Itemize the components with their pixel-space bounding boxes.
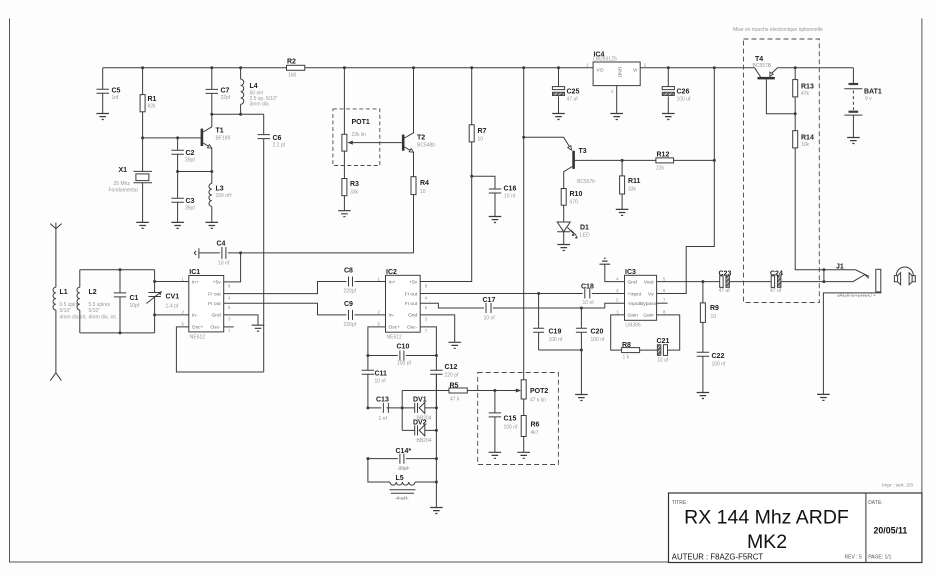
- svg-text:R4: R4: [420, 180, 429, 187]
- svg-text:22k lin: 22k lin: [352, 132, 367, 138]
- ground (C22): [697, 393, 710, 399]
- capacitor C3: [171, 172, 195, 223]
- capacitor C4 with input stub: [194, 241, 240, 267]
- svg-text:150 nH: 150 nH: [216, 193, 233, 199]
- svg-text:9 v: 9 v: [865, 96, 872, 102]
- capacitor C17: [483, 297, 625, 322]
- wire IC1 Osc+ loop to C6: [176, 327, 263, 372]
- capacitor C6: [258, 114, 286, 372]
- voltage regulator IC4: [586, 52, 647, 114]
- capacitor C13: [366, 397, 402, 423]
- capacitor C23: [719, 271, 772, 295]
- svg-text:R14: R14: [801, 135, 814, 142]
- capacitor C7: [206, 68, 231, 115]
- dashed box POT2 assembly: [478, 373, 559, 465]
- svg-text:10pf: 10pf: [130, 303, 140, 309]
- capacitor C15: [489, 389, 518, 452]
- svg-text:Gain: Gain: [628, 313, 639, 319]
- svg-text:C25: C25: [567, 89, 580, 96]
- transistor T3: [524, 137, 656, 188]
- svg-text:3mm dia: 3mm dia: [250, 102, 269, 108]
- resistor R8: [611, 315, 658, 361]
- svg-text:C10: C10: [397, 344, 410, 351]
- svg-text:47k: 47k: [801, 91, 810, 97]
- svg-text:L3: L3: [216, 186, 224, 193]
- svg-text:5/10": 5/10": [60, 308, 72, 314]
- svg-text:LM386: LM386: [625, 323, 641, 329]
- svg-text:POT2: POT2: [530, 388, 548, 395]
- wire +5v to IC1 pin8 / R4 emitter line: [224, 251, 414, 282]
- svg-text:10k: 10k: [801, 142, 810, 148]
- svg-text:BAT1: BAT1: [864, 89, 882, 96]
- svg-text:L2: L2: [89, 289, 97, 296]
- svg-text:R13: R13: [801, 84, 814, 91]
- svg-text:20/05/11: 20/05/11: [874, 526, 908, 536]
- svg-text:C14*: C14*: [396, 448, 412, 455]
- variable capacitor CV1: [147, 270, 180, 333]
- svg-text:100 nf: 100 nf: [549, 337, 564, 343]
- svg-text:1 k: 1 k: [623, 355, 630, 361]
- resistor R12: [656, 152, 714, 172]
- capacitor C22: [697, 352, 726, 392]
- capacitor C19: [533, 294, 563, 351]
- wire IC1 Osc- stub pin7: [224, 326, 234, 328]
- ground (IC1): [252, 325, 265, 331]
- svg-text:C8: C8: [344, 268, 353, 275]
- capacitor C26: [662, 68, 691, 114]
- ground (L5/C12 tank): [430, 508, 443, 514]
- ground (R3): [338, 211, 351, 217]
- ground (C5): [96, 114, 109, 120]
- ground (D1): [557, 245, 570, 251]
- svg-text:In-: In-: [389, 313, 395, 319]
- svg-text:C3: C3: [186, 198, 195, 205]
- svg-text:R10: R10: [570, 191, 583, 198]
- svg-text:LM2931Z5: LM2931Z5: [593, 57, 617, 63]
- svg-text:T4: T4: [755, 56, 763, 63]
- ground (BAT1): [847, 138, 860, 144]
- svg-text:4k7: 4k7: [531, 430, 539, 436]
- svg-text:Gnd: Gnd: [408, 313, 418, 319]
- svg-text:100 uf: 100 uf: [677, 97, 692, 103]
- svg-text:Osc+: Osc+: [192, 325, 204, 331]
- svg-text:VI: VI: [633, 68, 638, 74]
- svg-text:C17: C17: [483, 297, 496, 304]
- transistor T2: [402, 68, 435, 177]
- svg-text:10 nf: 10 nf: [484, 316, 496, 322]
- transistor T1: [201, 114, 231, 171]
- svg-text:C5: C5: [112, 88, 121, 95]
- svg-text:33k: 33k: [350, 190, 359, 196]
- inductor L3: [209, 172, 232, 223]
- svg-text:+5v: +5v: [409, 279, 418, 285]
- capacitor C14*: [366, 448, 438, 472]
- svg-text:39pf: 39pf: [185, 158, 195, 164]
- svg-text:4mm dia. int.: 4mm dia. int.: [89, 314, 118, 320]
- svg-text:22pf: 22pf: [221, 95, 231, 101]
- wire IC3 Gnd pin4: [605, 264, 625, 281]
- svg-text:MK2: MK2: [747, 531, 787, 553]
- capacitor C21: [657, 315, 680, 364]
- svg-text:In-: In-: [192, 313, 198, 319]
- svg-text:IC3: IC3: [625, 269, 636, 276]
- svg-text:C12: C12: [445, 364, 458, 371]
- svg-text:C15: C15: [504, 416, 517, 423]
- svg-text:TITRE:: TITRE:: [672, 500, 688, 506]
- svg-text:C4: C4: [217, 241, 226, 248]
- svg-text:47 uf: 47 uf: [719, 288, 731, 294]
- ground (IC4): [610, 114, 623, 120]
- ground (IC2): [448, 342, 461, 348]
- svg-text:IC2: IC2: [386, 269, 397, 276]
- wire IC3 pin7 stub: [657, 302, 668, 304]
- ground (C16): [489, 217, 502, 223]
- svg-text:RX 144 Mhz ARDF: RX 144 Mhz ARDF: [684, 507, 849, 529]
- svg-text:LED: LED: [580, 233, 590, 239]
- svg-text:In+: In+: [192, 279, 199, 285]
- resistor R2: [287, 59, 305, 79]
- svg-text:10: 10: [420, 189, 426, 195]
- svg-text:DV2: DV2: [413, 419, 427, 426]
- title block: [669, 493, 922, 563]
- svg-text:4mm dia int.: 4mm dia int.: [60, 314, 87, 320]
- headphones icon: [894, 267, 915, 285]
- svg-text:DV1: DV1: [413, 396, 427, 403]
- svg-text:R3: R3: [350, 181, 359, 188]
- svg-text:470: 470: [570, 200, 579, 206]
- svg-text:Impr : vert. 2/3: Impr : vert. 2/3: [882, 483, 913, 489]
- svg-text:Fondamental: Fondamental: [109, 188, 138, 194]
- LED D1: [557, 222, 590, 245]
- svg-text:+5v: +5v: [213, 279, 222, 285]
- wire supply branch to IC3 Vs: [657, 68, 716, 294]
- svg-text:C26: C26: [677, 89, 690, 96]
- svg-text:39pf: 39pf: [399, 466, 409, 472]
- op-amp/IC IC2 (NE612): [378, 269, 428, 341]
- svg-text:R12: R12: [657, 152, 670, 159]
- svg-text:10 nf: 10 nf: [583, 300, 595, 306]
- svg-text:10 uf: 10 uf: [657, 358, 669, 364]
- capacitor C18: [581, 284, 625, 307]
- svg-text:+Input: +Input: [628, 291, 642, 297]
- svg-text:100 pf: 100 pf: [397, 361, 412, 367]
- svg-text:47 k lin: 47 k lin: [530, 398, 546, 404]
- resistor R14: [793, 114, 824, 270]
- svg-text:R6: R6: [531, 422, 540, 429]
- svg-text:CV1: CV1: [166, 294, 180, 301]
- svg-text:VO: VO: [597, 68, 604, 74]
- svg-text:1 nf: 1 nf: [379, 416, 388, 422]
- svg-text:D1: D1: [580, 225, 589, 232]
- resistor R9: [700, 282, 719, 353]
- svg-text:REV : 5: REV : 5: [845, 555, 862, 561]
- svg-text:C22: C22: [712, 353, 725, 360]
- svg-text:100 nf: 100 nf: [712, 362, 727, 368]
- wire C19/C20 to ground: [539, 349, 583, 395]
- svg-text:22k: 22k: [656, 166, 665, 172]
- svg-text:L1: L1: [60, 289, 68, 296]
- svg-text:33k: 33k: [628, 187, 637, 193]
- svg-text:100 nf: 100 nf: [504, 425, 519, 431]
- ground (C15): [489, 452, 502, 458]
- capacitor C2: [171, 138, 195, 172]
- wire IC1 FI out pin5 to C9: [224, 303, 347, 315]
- svg-text:100 nf: 100 nf: [591, 337, 606, 343]
- svg-text:NE612: NE612: [190, 334, 206, 340]
- wire T1 base node: [141, 136, 201, 139]
- capacitor C11: [362, 356, 387, 408]
- svg-text:R11: R11: [628, 178, 641, 185]
- antenna: [50, 223, 61, 381]
- wire T1 collector node: [210, 113, 263, 116]
- svg-text:C23: C23: [719, 271, 732, 278]
- wire emitter node: [176, 170, 213, 173]
- svg-text:10: 10: [478, 137, 484, 143]
- svg-text:L4: L4: [250, 83, 258, 90]
- svg-text:T2: T2: [417, 135, 425, 142]
- svg-text:C6: C6: [273, 135, 282, 142]
- svg-text:BB204: BB204: [417, 438, 432, 444]
- svg-text:Osc+: Osc+: [389, 325, 401, 331]
- svg-text:C2: C2: [186, 150, 195, 157]
- resistor R7: [420, 68, 486, 282]
- svg-text:FI out: FI out: [208, 301, 221, 307]
- svg-text:47 k: 47 k: [450, 397, 460, 403]
- dashed box Mise en marche electronique optionnelle: [733, 27, 823, 303]
- ground (X1): [136, 222, 149, 228]
- svg-text:1k8: 1k8: [288, 73, 296, 79]
- svg-text:GND: GND: [617, 67, 623, 78]
- transistor T4: [753, 56, 796, 114]
- wire IC2 Osc- riser: [420, 327, 436, 356]
- ground (C3): [171, 222, 184, 228]
- svg-text:FI out: FI out: [405, 301, 418, 307]
- inductor L4: [241, 68, 278, 115]
- svg-text:220pf: 220pf: [344, 322, 357, 328]
- capacitor C24: [770, 271, 824, 295]
- svg-text:2.2 pf: 2.2 pf: [273, 143, 286, 149]
- capacitor C5: [97, 68, 121, 114]
- svg-text:47 uf: 47 uf: [770, 288, 782, 294]
- svg-text:C7: C7: [221, 88, 230, 95]
- wire IC3 Vout to C23: [657, 280, 720, 283]
- svg-text:FI out: FI out: [405, 291, 418, 297]
- svg-text:C1: C1: [130, 295, 139, 302]
- svg-text:Gnd: Gnd: [628, 279, 638, 285]
- svg-text:POT1: POT1: [352, 119, 370, 126]
- svg-text:220 pf: 220 pf: [445, 373, 460, 379]
- wire tank to IC1 inputs: [153, 280, 189, 316]
- wire IC1 FI out pin4 to C8: [224, 282, 347, 294]
- resistor R1: [140, 68, 156, 138]
- wire input tank top/bottom: [80, 270, 155, 333]
- ground (J1 sleeve): [817, 394, 830, 400]
- ground (up) (IC3 pin4): [600, 258, 611, 264]
- battery BAT1: [844, 68, 882, 138]
- svg-text:R1: R1: [148, 96, 157, 103]
- op-amp/IC IC3 (LM386): [616, 269, 666, 329]
- svg-text:Osc-: Osc-: [407, 325, 418, 331]
- svg-text:JACK STEREO +: JACK STEREO +: [837, 293, 876, 299]
- svg-text:1-4 pf: 1-4 pf: [166, 304, 179, 310]
- capacitor C20: [576, 308, 605, 350]
- svg-text:Mise en marche électronique op: Mise en marche électronique optionnelle: [733, 27, 823, 33]
- capacitor C25: [552, 68, 579, 114]
- svg-text:4 uH: 4 uH: [397, 496, 408, 502]
- ground (R6): [517, 452, 530, 458]
- svg-text:R5: R5: [450, 383, 459, 390]
- svg-text:5/10": 5/10": [89, 308, 101, 314]
- svg-text:10: 10: [711, 314, 717, 320]
- svg-text:25 Mhz: 25 Mhz: [114, 181, 131, 187]
- svg-text:In+: In+: [389, 279, 396, 285]
- capacitor C9: [344, 301, 386, 328]
- svg-text:C16: C16: [504, 186, 517, 193]
- resistor R5: [402, 383, 495, 403]
- svg-text:47 uf: 47 uf: [567, 97, 579, 103]
- wire IC2 FI out to C17: [420, 303, 484, 308]
- svg-text:C19: C19: [549, 329, 562, 336]
- svg-text:BC548b: BC548b: [417, 143, 435, 149]
- capacitor C16: [472, 176, 517, 216]
- svg-text:10 nf: 10 nf: [218, 261, 230, 267]
- inductor L2: [77, 270, 117, 333]
- ground (R11): [616, 209, 629, 215]
- svg-text:L5: L5: [396, 475, 404, 482]
- capacitor C1: [114, 268, 140, 334]
- svg-text:R9: R9: [710, 305, 719, 312]
- svg-text:T1: T1: [216, 128, 224, 135]
- svg-text:39pf: 39pf: [185, 206, 195, 212]
- op-amp/IC IC1 (NE612): [182, 269, 232, 340]
- svg-text:Gain: Gain: [643, 313, 654, 319]
- svg-text:C13: C13: [376, 397, 389, 404]
- svg-text:R2: R2: [287, 59, 296, 66]
- svg-text:C21: C21: [657, 338, 670, 345]
- resistor R13: [793, 68, 814, 115]
- svg-text:PAGE: 1/1: PAGE: 1/1: [868, 555, 891, 561]
- svg-text:Vout: Vout: [644, 279, 654, 285]
- svg-text:BF199: BF199: [216, 136, 231, 142]
- capacitor C10: [366, 344, 438, 367]
- svg-text:C18: C18: [581, 284, 594, 291]
- svg-text:1nf: 1nf: [112, 95, 120, 101]
- svg-text:C24: C24: [770, 271, 783, 278]
- svg-text:Gnd: Gnd: [211, 313, 221, 319]
- svg-text:C11: C11: [375, 371, 388, 378]
- resistor R6: [521, 399, 539, 452]
- potentiometer POT1: [333, 68, 402, 179]
- wire tank right line to ground: [435, 374, 437, 507]
- svg-text:FI out: FI out: [208, 291, 221, 297]
- svg-text:IC1: IC1: [189, 269, 200, 276]
- svg-text:10 nf: 10 nf: [504, 194, 516, 200]
- svg-text:NE612: NE612: [387, 335, 403, 341]
- ground (C25): [552, 114, 565, 120]
- varicap diode DV2: [402, 419, 438, 444]
- svg-text:AUTEUR : F8AZG-F5RCT: AUTEUR : F8AZG-F5RCT: [672, 553, 764, 562]
- ground (C19/C20): [575, 395, 588, 401]
- wire IC1 Gnd pin3: [224, 315, 258, 325]
- svg-text:220pf: 220pf: [344, 289, 357, 295]
- svg-text:X1: X1: [119, 167, 128, 174]
- connector J1 jack stereo: [822, 264, 880, 395]
- varicap diode DV1: [402, 396, 438, 421]
- capacitor C8: [344, 268, 386, 295]
- svg-text:BC557b: BC557b: [577, 179, 595, 185]
- wire IC2 Osc+ riser: [368, 327, 386, 356]
- potentiometer POT2: [495, 380, 548, 404]
- resistor R11: [620, 159, 641, 210]
- svg-text:Osc-: Osc-: [210, 325, 221, 331]
- print note: [882, 483, 913, 489]
- svg-text:R7: R7: [478, 128, 487, 135]
- svg-text:-InputBypass: -InputBypass: [628, 301, 657, 307]
- wire +V top rail: [103, 66, 854, 69]
- crystal X1: [109, 138, 153, 223]
- ground (L3): [206, 222, 219, 228]
- svg-text:J1: J1: [836, 264, 844, 271]
- svg-text:10 nf: 10 nf: [375, 379, 387, 385]
- inductor L5: [368, 459, 438, 502]
- resistor R4: [411, 177, 429, 253]
- inductor L1: [53, 287, 87, 320]
- resistor R3: [342, 179, 359, 211]
- resistor R10: [561, 189, 582, 223]
- svg-text:C9: C9: [344, 301, 353, 308]
- svg-text:T3: T3: [579, 148, 587, 155]
- svg-text:DATE:: DATE:: [868, 500, 882, 506]
- wire supply riser to T3 and POT2: [522, 68, 525, 380]
- wire IC2 Gnd pin3: [420, 315, 455, 342]
- svg-text:Vs: Vs: [648, 291, 654, 297]
- ground (C26): [662, 114, 675, 120]
- svg-text:82k: 82k: [148, 104, 157, 110]
- wire varicap tuning line: [401, 391, 404, 431]
- svg-text:C20: C20: [591, 329, 604, 336]
- capacitor C12: [430, 356, 459, 408]
- wire IC2 FI out to C18/IC3: [420, 292, 583, 295]
- svg-text:BC557B: BC557B: [753, 63, 772, 69]
- svg-text:R8: R8: [622, 342, 631, 349]
